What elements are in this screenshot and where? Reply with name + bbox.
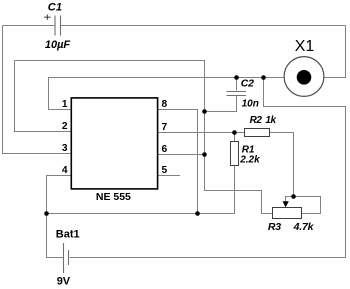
wire right vertical to X1 right terminal bbox=[324, 26, 346, 78]
connector X1 circle bbox=[284, 57, 324, 97]
wire X1 left terminal line to pin1 corner bbox=[49, 78, 285, 110]
wire top rail C1 to top-right corner bbox=[61, 25, 346, 27]
svg-text:C1: C1 bbox=[48, 2, 62, 14]
svg-text:7: 7 bbox=[162, 122, 168, 133]
junction C2 top / X1 line bbox=[234, 75, 239, 80]
svg-text:5: 5 bbox=[162, 165, 168, 176]
potentiometer R3 wiper arrow bbox=[283, 201, 289, 207]
wire pin 4 down to battery bbox=[47, 176, 72, 258]
svg-text:R2 1k: R2 1k bbox=[250, 115, 277, 126]
svg-text:C2: C2 bbox=[241, 77, 254, 89]
potentiometer R3 body bbox=[273, 208, 302, 219]
wire upper rail y60 to pin2/6 vertical down to R3 left terminal bbox=[15, 61, 273, 214]
junction pin 6 / trigger net bbox=[202, 152, 207, 157]
C1 polarity plus bbox=[44, 15, 50, 20]
wire outer left vertical to pin 3 bbox=[3, 26, 72, 154]
wire V+ rail to R1 bottom bbox=[47, 166, 235, 214]
svg-text:6: 6 bbox=[162, 144, 168, 155]
svg-text:10µF: 10µF bbox=[45, 39, 71, 51]
wire pin 5 stub dangling bbox=[158, 175, 181, 177]
wire top rail left of C1 bbox=[3, 25, 55, 27]
capacitor C1 plates bbox=[55, 16, 61, 36]
wire pin 6 stub bbox=[158, 154, 205, 156]
junction pin 8 / battery rail bbox=[195, 211, 200, 216]
svg-text:2: 2 bbox=[62, 121, 68, 132]
resistor R1 body bbox=[231, 142, 239, 166]
wire R1 top link bbox=[234, 133, 236, 142]
junction pin 4 / battery rail bbox=[44, 211, 49, 216]
svg-text:X1: X1 bbox=[295, 38, 315, 55]
svg-text:4: 4 bbox=[62, 165, 68, 176]
svg-text:NE 555: NE 555 bbox=[96, 191, 131, 203]
svg-text:8: 8 bbox=[162, 99, 168, 110]
svg-text:Bat1: Bat1 bbox=[56, 228, 80, 240]
svg-text:10n: 10n bbox=[242, 98, 259, 109]
capacitor C2 plates bbox=[227, 92, 247, 96]
wire C2 bottom branch bbox=[205, 96, 237, 112]
junction battery return / X1 line bbox=[261, 75, 266, 80]
svg-text:3: 3 bbox=[62, 143, 68, 154]
battery Bat1 plates bbox=[64, 243, 69, 273]
IC U1 NE555 box bbox=[71, 98, 157, 189]
wire pin 8 to V+ rail bbox=[158, 110, 198, 214]
wire wiper junction to R3 right terminal bbox=[294, 197, 321, 214]
wire R2 right to wiper vertical bbox=[269, 133, 294, 197]
wire C2 top branch bbox=[236, 78, 238, 91]
svg-text:2.2k: 2.2k bbox=[239, 155, 260, 166]
wire pin 7 to R2 bbox=[158, 132, 246, 134]
junction R2 / R3 wiper bbox=[291, 194, 296, 199]
resistor R2 body bbox=[245, 129, 270, 137]
junction C2 bottom branch bbox=[202, 109, 207, 114]
wire battery plus to right side up to y77 junction bbox=[70, 78, 346, 258]
svg-text:1: 1 bbox=[62, 99, 68, 110]
svg-text:R3: R3 bbox=[268, 221, 281, 233]
svg-text:4.7k: 4.7k bbox=[293, 221, 315, 233]
svg-text:9V: 9V bbox=[57, 276, 71, 288]
wire wiper arrow shaft bbox=[286, 197, 294, 202]
junction pin 7 / R1 top bbox=[232, 130, 237, 135]
X1 center dot bbox=[297, 70, 312, 85]
wire pin 2 to upper rail bbox=[15, 61, 72, 132]
